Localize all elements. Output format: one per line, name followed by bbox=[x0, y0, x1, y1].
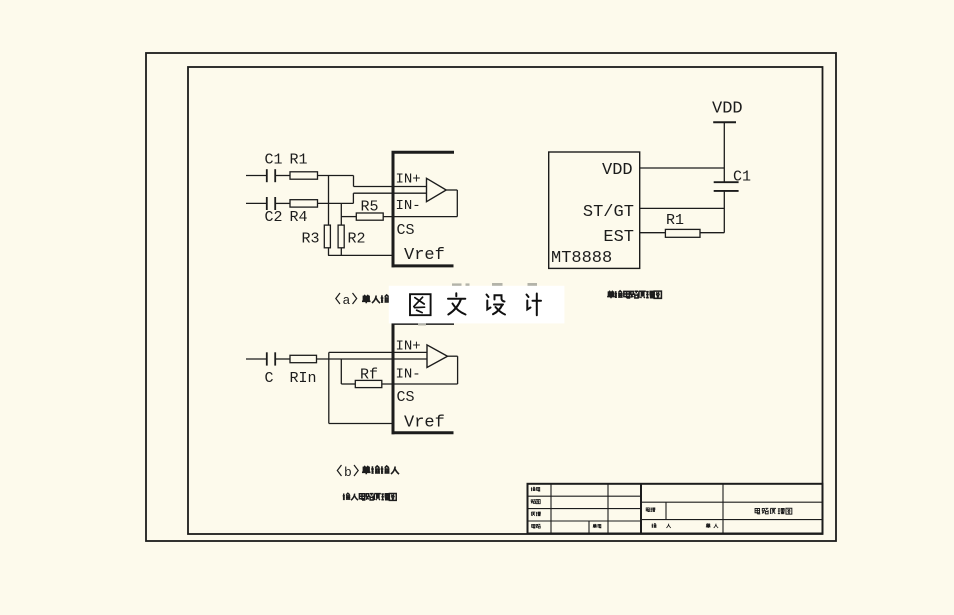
resistor R2 bbox=[338, 225, 344, 248]
wire: R2 top lead from R4 node bbox=[340, 203, 342, 225]
resistor R1 bbox=[290, 172, 318, 179]
svg-text:IN-: IN- bbox=[396, 198, 421, 214]
wire: R5 to op-amp output feedback bbox=[383, 216, 457, 218]
resistor R1 (MT8888) bbox=[665, 229, 700, 237]
resistor Rf bbox=[355, 380, 382, 387]
svg-text:Vref: Vref bbox=[404, 413, 445, 432]
resistor R3 bbox=[324, 225, 330, 248]
wire: input stub row 2 (a) bbox=[246, 202, 267, 204]
wire: R2 bottom lead bbox=[340, 248, 342, 256]
resistor RIn bbox=[290, 355, 317, 362]
svg-text:b: b bbox=[344, 465, 352, 480]
svg-text:IN-: IN- bbox=[396, 367, 421, 383]
svg-text:a: a bbox=[343, 293, 351, 308]
wire: R1 to C1 node bbox=[700, 232, 724, 234]
wire: RIn output through to IN- (b) bbox=[317, 358, 427, 360]
svg-text:EST: EST bbox=[603, 228, 634, 247]
resistor R4 bbox=[290, 200, 318, 207]
block outline circuit (a) chip edge bbox=[392, 151, 455, 267]
wire: junction vertical R1-node to R3 bbox=[328, 176, 330, 226]
wire: IN+ feed (b) bbox=[329, 351, 427, 353]
wire: R4 output run bbox=[318, 202, 354, 204]
wire: Rf left lead bbox=[341, 383, 355, 385]
wire: Vref bottom rail (a) bbox=[328, 254, 393, 256]
svg-text:R4: R4 bbox=[290, 209, 308, 226]
block outline circuit (b) chip edge bbox=[392, 322, 455, 434]
wire: junction vertical IN+/Vref (b) bbox=[328, 352, 330, 423]
caption 控制电路原理图 bbox=[607, 291, 615, 298]
wire: input stub (b) bbox=[246, 358, 267, 360]
caption 输入电路原理图 bbox=[343, 493, 351, 500]
wire: op-amp output loop (b) bbox=[448, 356, 458, 384]
wire: C1 bottom to EST node bbox=[723, 191, 725, 233]
capacitor C (circuit b) bbox=[267, 352, 275, 365]
wire: Rf tap vertical (b) bbox=[340, 359, 342, 384]
svg-text:VDD: VDD bbox=[712, 100, 743, 119]
svg-text:RIn: RIn bbox=[290, 370, 317, 387]
wire: Vref rail (b) bbox=[329, 423, 393, 425]
svg-text:CS: CS bbox=[397, 222, 415, 239]
wire: ST/GT pin bbox=[640, 207, 725, 209]
wire: VDD pin to C1 node bbox=[640, 167, 725, 169]
wire: Rf to op-amp output feedback (b) bbox=[382, 383, 458, 385]
svg-text:R1: R1 bbox=[290, 152, 308, 169]
caption (b) 单端输入 bbox=[337, 465, 399, 480]
wire: C1 to R1 bbox=[275, 175, 290, 177]
svg-text:Rf: Rf bbox=[360, 367, 378, 384]
wire: EST pin to R1 bbox=[640, 232, 666, 234]
svg-text:R5: R5 bbox=[361, 199, 379, 216]
wire: input stub row 1 (a) bbox=[246, 175, 267, 177]
op-amp U1 (circuit a) bbox=[427, 178, 447, 201]
wire: R5 left lead bbox=[341, 216, 356, 218]
watermark remnant dashes bbox=[418, 283, 537, 326]
wire: step up into IN- (a) bbox=[353, 193, 426, 203]
watermark 图文设计 bbox=[389, 286, 565, 324]
wire: R3 bottom lead bbox=[328, 248, 330, 256]
svg-text:R3: R3 bbox=[302, 231, 320, 248]
svg-text:C2: C2 bbox=[265, 209, 283, 226]
resistor R5 bbox=[356, 213, 383, 220]
svg-text:CS: CS bbox=[397, 389, 415, 406]
wire: VDD bar down to C1 bbox=[723, 122, 725, 182]
svg-text:Vref: Vref bbox=[404, 246, 445, 265]
svg-text:R2: R2 bbox=[348, 231, 366, 248]
wire: C2 to R4 bbox=[275, 202, 290, 204]
wire: step down into IN+ (a) bbox=[354, 176, 427, 187]
capacitor C1 (input coupling, circuit a) bbox=[267, 169, 275, 182]
power symbol VDD bbox=[712, 100, 743, 123]
svg-text:C: C bbox=[265, 370, 274, 387]
IC U3 MT8888 body bbox=[549, 152, 640, 268]
op-amp U2 (circuit b) bbox=[427, 345, 448, 368]
capacitor C2 (input coupling, circuit a) bbox=[267, 197, 275, 210]
wire: R1 output to step node bbox=[318, 175, 354, 177]
wire: C to RIn bbox=[275, 358, 290, 360]
caption (a) 差分输入 bbox=[336, 293, 399, 308]
wire: op-amp output loop (a) bbox=[446, 190, 457, 217]
svg-text:C1: C1 bbox=[265, 152, 283, 169]
svg-text:ST/GT: ST/GT bbox=[583, 203, 634, 222]
svg-text:IN+: IN+ bbox=[396, 171, 421, 187]
svg-text:MT8888: MT8888 bbox=[551, 249, 612, 268]
capacitor C1 (decoupling, MT8888) bbox=[714, 182, 739, 191]
svg-text:C1: C1 bbox=[733, 169, 751, 186]
svg-text:VDD: VDD bbox=[602, 161, 633, 180]
svg-text:IN+: IN+ bbox=[396, 339, 421, 355]
svg-text:R1: R1 bbox=[666, 212, 684, 229]
